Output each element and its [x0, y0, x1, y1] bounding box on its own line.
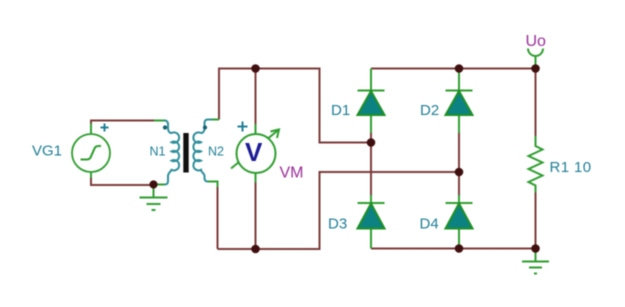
svg-text:R1 10: R1 10 — [550, 159, 592, 176]
svg-text:D1: D1 — [331, 102, 350, 119]
svg-text:VG1: VG1 — [32, 143, 62, 160]
svg-text:N2: N2 — [208, 145, 224, 159]
svg-text:N1: N1 — [150, 145, 166, 159]
svg-text:D4: D4 — [420, 215, 439, 232]
svg-text:Uo: Uo — [526, 33, 547, 50]
svg-text:V: V — [245, 137, 263, 167]
svg-text:D3: D3 — [328, 215, 347, 232]
svg-text:D2: D2 — [420, 102, 439, 119]
svg-text:VM: VM — [280, 164, 304, 181]
